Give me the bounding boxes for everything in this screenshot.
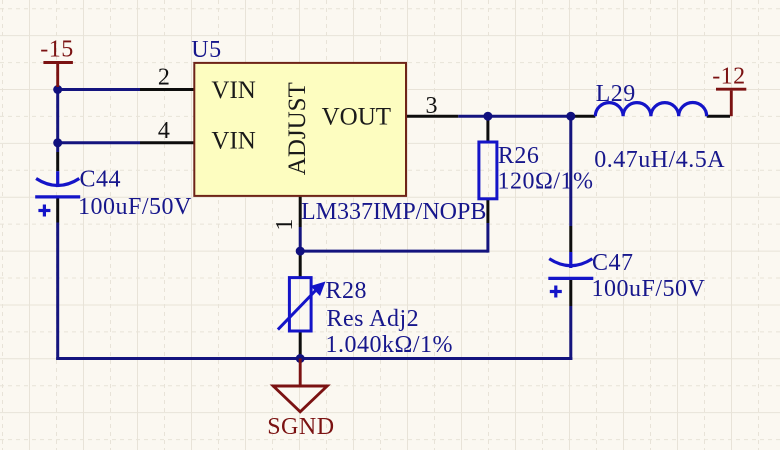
svg-text:4: 4 [158, 118, 170, 144]
svg-text:-12: -12 [712, 63, 746, 89]
svg-text:-15: -15 [40, 37, 74, 63]
svg-text:2: 2 [158, 65, 170, 91]
svg-text:SGND: SGND [267, 414, 334, 440]
svg-text:R26: R26 [498, 143, 540, 169]
svg-text:3: 3 [426, 93, 438, 119]
svg-text:C47: C47 [592, 250, 634, 276]
svg-text:U5: U5 [191, 37, 221, 63]
svg-text:1.040kΩ/1%: 1.040kΩ/1% [326, 332, 454, 358]
svg-text:VIN: VIN [211, 77, 255, 104]
svg-text:R28: R28 [326, 278, 368, 304]
svg-text:LM337IMP/NOPB: LM337IMP/NOPB [301, 199, 486, 225]
svg-text:0.47uH/4.5A: 0.47uH/4.5A [594, 147, 725, 173]
svg-text:ADJUST: ADJUST [284, 82, 311, 175]
svg-text:L29: L29 [596, 81, 636, 107]
svg-text:1: 1 [272, 219, 298, 231]
svg-text:Res Adj2: Res Adj2 [327, 306, 420, 332]
svg-text:100uF/50V: 100uF/50V [78, 194, 192, 220]
svg-text:C44: C44 [80, 167, 122, 193]
svg-text:120Ω/1%: 120Ω/1% [498, 169, 594, 195]
svg-text:VIN: VIN [211, 127, 255, 154]
svg-text:100uF/50V: 100uF/50V [592, 276, 706, 302]
svg-text:VOUT: VOUT [322, 104, 391, 131]
